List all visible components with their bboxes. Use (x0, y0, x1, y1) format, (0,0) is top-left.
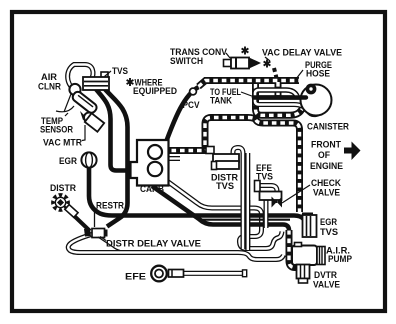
svg-text:ENGINE: ENGINE (310, 161, 344, 172)
svg-text:VALVE: VALVE (313, 280, 341, 291)
svg-text:TVS: TVS (112, 66, 129, 77)
svg-text:TVS: TVS (256, 172, 274, 183)
svg-text:EQUIPPED: EQUIPPED (133, 86, 177, 97)
svg-text:OF: OF (318, 150, 330, 161)
svg-text:VAC MTR: VAC MTR (43, 138, 82, 149)
svg-text:SENSOR: SENSOR (40, 125, 73, 136)
svg-text:DISTR: DISTR (50, 183, 76, 194)
svg-text:RESTR: RESTR (96, 201, 124, 212)
svg-text:EGR: EGR (59, 156, 77, 167)
svg-text:CARB: CARB (140, 184, 164, 195)
svg-text:PUMP: PUMP (328, 254, 353, 265)
svg-text:TVS: TVS (216, 181, 235, 192)
svg-text:DISTR DELAY VALVE: DISTR DELAY VALVE (106, 239, 202, 250)
svg-text:VALVE: VALVE (313, 188, 341, 199)
svg-text:EFE: EFE (125, 272, 147, 283)
svg-text:HOSE: HOSE (306, 69, 331, 80)
svg-text:SWITCH: SWITCH (170, 56, 203, 67)
svg-text:FRONT: FRONT (311, 140, 341, 151)
svg-text:TVS: TVS (320, 227, 339, 238)
svg-text:TANK: TANK (210, 96, 232, 107)
svg-text:CLNR: CLNR (38, 82, 61, 93)
svg-text:PCV: PCV (183, 100, 201, 111)
svg-text:CANISTER: CANISTER (307, 122, 349, 133)
svg-text:VAC DELAY VALVE: VAC DELAY VALVE (262, 48, 343, 59)
